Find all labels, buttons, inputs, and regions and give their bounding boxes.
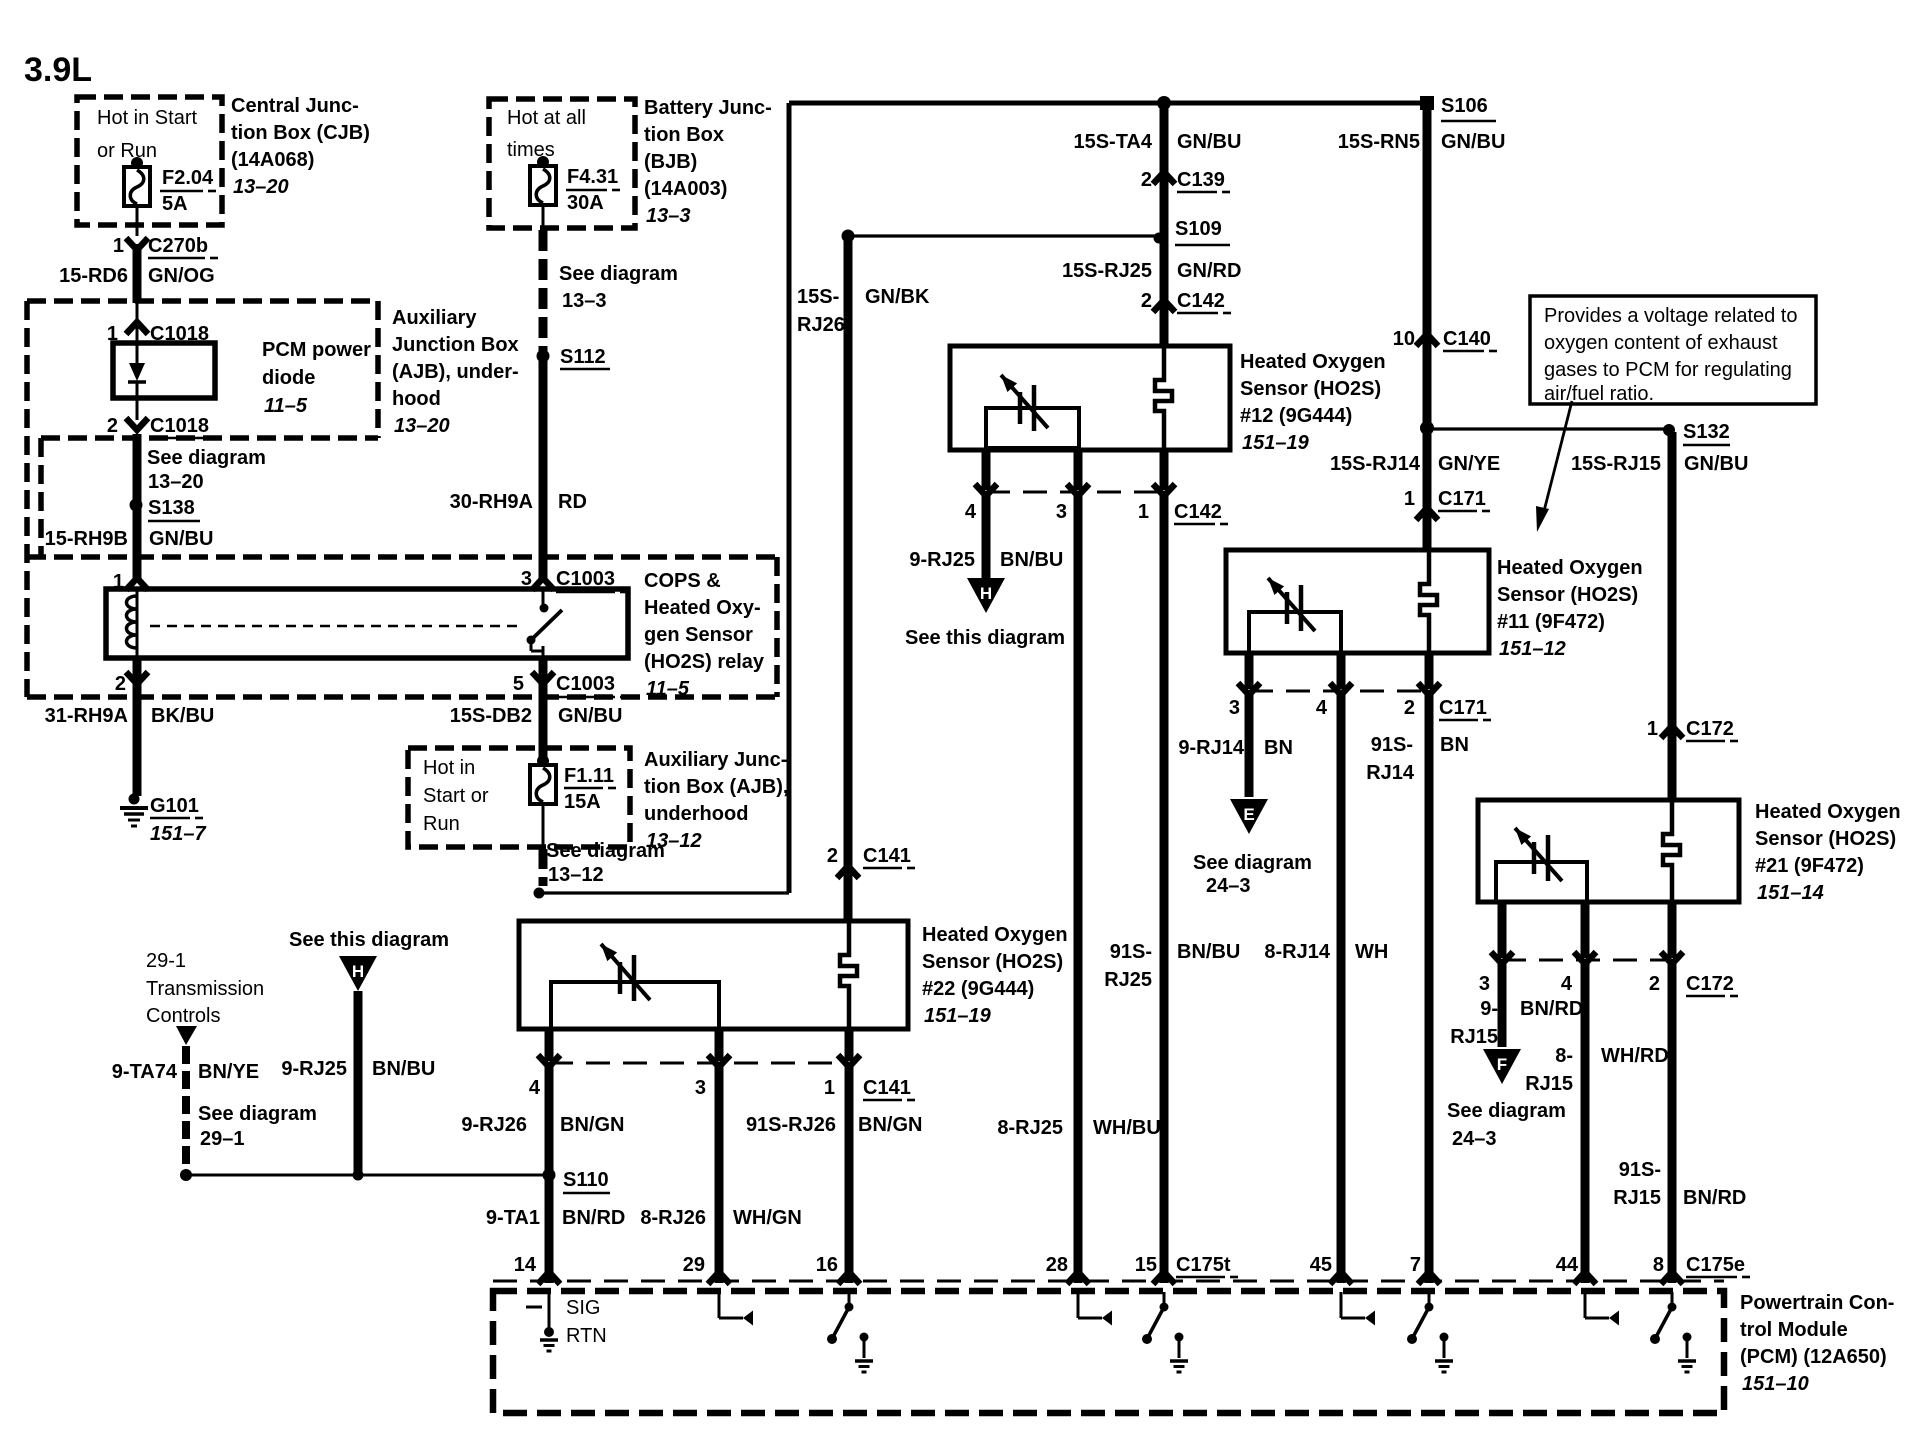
svg-text:44: 44 (1556, 1254, 1579, 1276)
svg-text:(14A068): (14A068) (231, 149, 314, 171)
svg-text:Start or: Start or (423, 785, 489, 807)
svg-text:8: 8 (1653, 1254, 1664, 1276)
PCM box (dashed) (493, 1291, 1724, 1413)
arrow from transmission (176, 1026, 197, 1045)
svg-text:Battery Junc-: Battery Junc- (644, 97, 772, 119)
svg-text:Central Junc-: Central Junc- (231, 95, 359, 117)
svg-text:BN/BU: BN/BU (1000, 549, 1063, 571)
svg-text:4: 4 (965, 501, 977, 523)
wire 30-RH9A RD (450, 356, 587, 578)
svg-text:91S-RJ26: 91S-RJ26 (746, 1114, 836, 1136)
svg-text:3.9L: 3.9L (24, 51, 92, 89)
connector C175e (1686, 1254, 1750, 1277)
svg-text:13–3: 13–3 (562, 290, 607, 312)
PCM pin arrows (538, 1272, 1683, 1284)
note box (1530, 296, 1816, 405)
node S110 (543, 1169, 611, 1194)
svg-text:See diagram: See diagram (559, 263, 678, 285)
svg-text:Auxiliary Junc-: Auxiliary Junc- (644, 749, 787, 771)
svg-text:Sensor (HO2S): Sensor (HO2S) (922, 951, 1063, 973)
svg-text:Hot at all: Hot at all (507, 107, 586, 129)
svg-text:151–19: 151–19 (924, 1005, 992, 1027)
svg-text:#21 (9F472): #21 (9F472) (1755, 855, 1864, 877)
svg-text:BN/RD: BN/RD (562, 1207, 625, 1229)
HO2S #11 pins to C171 (1249, 653, 1429, 689)
svg-text:RJ15: RJ15 (1450, 1026, 1498, 1048)
svg-text:3: 3 (1229, 697, 1240, 719)
svg-text:S112: S112 (560, 346, 606, 368)
relay pin 3 C1003 (521, 568, 628, 592)
svg-text:Controls: Controls (146, 1005, 220, 1027)
svg-text:BN: BN (1264, 737, 1293, 759)
svg-text:C1018: C1018 (150, 415, 209, 437)
svg-text:F2.04: F2.04 (162, 167, 214, 189)
svg-text:91S-: 91S- (1110, 941, 1152, 963)
svg-text:C175e: C175e (1686, 1254, 1745, 1276)
svg-text:16: 16 (816, 1254, 838, 1276)
svg-text:10: 10 (1393, 328, 1415, 350)
label Heated Oxygen Sensor #22 (922, 924, 1068, 1027)
svg-text:RD: RD (558, 491, 587, 513)
svg-text:Hot in Start: Hot in Start (97, 107, 197, 129)
svg-text:(AJB), under-: (AJB), under- (392, 361, 519, 383)
connector C1018 pin 1 (107, 322, 209, 345)
svg-text:S132: S132 (1683, 421, 1730, 443)
HO2S #21 heater (1496, 828, 1587, 902)
svg-text:1: 1 (1647, 718, 1658, 740)
svg-text:COPS &: COPS & (644, 570, 721, 592)
wire to C141 pin 2 (844, 240, 853, 921)
svg-text:30A: 30A (567, 192, 604, 214)
svg-text:S109: S109 (1175, 218, 1222, 240)
junction box AJB F1.11 (dashed) (408, 748, 630, 847)
svg-text:(BJB): (BJB) (644, 151, 697, 173)
svg-text:15S-RJ25: 15S-RJ25 (1062, 260, 1152, 282)
svg-text:C142: C142 (1174, 501, 1222, 523)
label See diagram 13-12 (546, 840, 665, 886)
svg-text:15S-DB2: 15S-DB2 (450, 705, 532, 727)
HO2S #12 pins to C142 (986, 450, 1164, 490)
svg-text:29-1: 29-1 (146, 950, 186, 972)
junction box AJB (dashed) (27, 301, 378, 697)
svg-text:BN/GN: BN/GN (560, 1114, 624, 1136)
svg-text:BN/GN: BN/GN (858, 1114, 922, 1136)
svg-text:GN/BU: GN/BU (558, 705, 622, 727)
svg-text:Heated Oxy-: Heated Oxy- (644, 597, 761, 619)
svg-text:11–5: 11–5 (646, 678, 690, 700)
svg-text:RJ15: RJ15 (1613, 1187, 1661, 1209)
svg-text:9-RJ26: 9-RJ26 (461, 1114, 527, 1136)
relay outer dashed box (27, 557, 777, 697)
fuse F1.11 15A (530, 755, 556, 804)
node on top bus (1157, 96, 1171, 110)
wire 9-RJ25 BN/BU (H) (281, 991, 435, 1174)
connector C171 line (1238, 683, 1440, 695)
svg-text:gen Sensor: gen Sensor (644, 624, 753, 646)
svg-text:#22 (9G444): #22 (9G444) (922, 978, 1034, 1000)
svg-text:Sensor (HO2S): Sensor (HO2S) (1755, 828, 1896, 850)
svg-text:Heated Oxygen: Heated Oxygen (1755, 801, 1901, 823)
relay pin 1 (113, 571, 148, 593)
label Hot in Start or Run (AJB) (423, 757, 489, 835)
svg-text:13–20: 13–20 (233, 176, 289, 198)
svg-text:2: 2 (1404, 697, 1415, 719)
label See diagram 13-3 (559, 263, 678, 312)
svg-text:BN/BU: BN/BU (372, 1058, 435, 1080)
HO2S #21 box (1478, 800, 1739, 902)
HO2S #12 heater (986, 375, 1079, 448)
wire 9-RJ15 BN/RD to F (1450, 964, 1583, 1048)
svg-text:See diagram: See diagram (147, 447, 266, 469)
wire fuse to C270b (136, 206, 139, 236)
svg-text:GN/BK: GN/BK (865, 286, 930, 308)
svg-text:C171: C171 (1438, 488, 1486, 510)
svg-text:underhood: underhood (644, 803, 748, 825)
svg-text:4: 4 (1561, 973, 1573, 995)
svg-text:oxygen content of exhaust: oxygen content of exhaust (1544, 332, 1778, 354)
svg-text:1: 1 (1404, 488, 1415, 510)
svg-text:#11 (9F472): #11 (9F472) (1497, 611, 1605, 633)
wire 9-RJ26 BN/GN pcm14 (461, 1067, 624, 1283)
diode box PCM power diode (113, 343, 215, 398)
svg-text:(PCM) (12A650): (PCM) (12A650) (1740, 1346, 1887, 1368)
svg-text:GN/BU: GN/BU (149, 528, 213, 550)
wire 31-RH9A BK/BU (45, 658, 215, 796)
svg-text:151–14: 151–14 (1757, 882, 1824, 904)
label F2.04 5A (160, 167, 216, 215)
svg-text:trol Module: trol Module (1740, 1319, 1848, 1341)
PCM pin numbers (514, 1254, 1664, 1276)
svg-text:2: 2 (115, 673, 126, 695)
svg-text:Transmission: Transmission (146, 978, 264, 1000)
dashed wire 9-TA74 BN/YE (112, 1046, 259, 1170)
svg-text:11–5: 11–5 (264, 395, 308, 417)
svg-text:C171: C171 (1439, 697, 1487, 719)
connector C141 pin 2 (827, 845, 915, 878)
svg-text:See this diagram: See this diagram (905, 627, 1065, 649)
fuse F2.04 5A (124, 157, 150, 206)
splice S132 (1420, 421, 1730, 445)
note arrow (1536, 401, 1572, 532)
svg-text:15S-RJ14: 15S-RJ14 (1330, 453, 1421, 475)
label Hot in Start or Run (97, 107, 197, 162)
HO2S #11 box (1226, 550, 1489, 653)
HO2S #22 heater (551, 944, 719, 1029)
connector C175 line (493, 1280, 1724, 1283)
HO2S #22 pins to C141 (549, 1029, 849, 1061)
svg-text:Sensor (HO2S): Sensor (HO2S) (1497, 584, 1638, 606)
svg-text:C1003: C1003 (556, 673, 615, 695)
wire 15-RD6 GN/OG (59, 244, 215, 303)
svg-text:13–3: 13–3 (646, 205, 691, 227)
svg-text:15-RH9B: 15-RH9B (45, 528, 128, 550)
svg-text:8-RJ26: 8-RJ26 (640, 1207, 706, 1229)
svg-text:G101: G101 (150, 795, 199, 817)
svg-text:See diagram: See diagram (198, 1103, 317, 1125)
label 29-1 Transmission Controls (146, 950, 264, 1027)
svg-text:31-RH9A: 31-RH9A (45, 705, 128, 727)
relay coil (127, 596, 138, 648)
svg-text:151–7: 151–7 (150, 823, 206, 845)
label Central Junction Box (231, 95, 370, 198)
svg-text:13–20: 13–20 (148, 471, 204, 493)
svg-text:Heated Oxygen: Heated Oxygen (1497, 557, 1643, 579)
HO2S #22 box (519, 921, 908, 1029)
svg-text:4: 4 (1316, 697, 1328, 719)
svg-text:C140: C140 (1443, 328, 1491, 350)
svg-text:GN/BU: GN/BU (1684, 453, 1748, 475)
relay switch (527, 589, 563, 660)
fuse F4.31 30A (530, 156, 556, 205)
svg-text:C141: C141 (863, 1077, 911, 1099)
svg-text:Run: Run (423, 813, 460, 835)
svg-text:See diagram: See diagram (546, 840, 665, 862)
svg-text:RJ14: RJ14 (1366, 762, 1415, 784)
label PCM power diode (262, 339, 371, 417)
svg-text:RJ25: RJ25 (1104, 969, 1152, 991)
connector C172 line (1491, 952, 1683, 964)
wire below BJB (dashed) (542, 205, 545, 352)
svg-text:3: 3 (695, 1077, 706, 1099)
svg-text:9-TA1: 9-TA1 (486, 1207, 540, 1229)
wire 8-RJ14 WH pcm45 (1264, 695, 1388, 1283)
PCM pin 45 input arrow (1341, 1292, 1375, 1326)
svg-text:8-RJ25: 8-RJ25 (997, 1117, 1063, 1139)
PCM pin 7 switch to ground (1407, 1292, 1453, 1372)
svg-text:C172: C172 (1686, 973, 1734, 995)
svg-text:hood: hood (392, 388, 441, 410)
svg-text:1: 1 (824, 1077, 835, 1099)
label Powertrain Control Module (1740, 1292, 1894, 1395)
PCM pin 44 input arrow (1585, 1292, 1619, 1326)
label F4.31 30A (566, 166, 620, 214)
connector C171 pin 1 (1404, 488, 1490, 520)
wire 15S-DB2 GN/BU (450, 658, 623, 760)
svg-text:9-: 9- (1480, 998, 1498, 1020)
svg-text:30-RH9A: 30-RH9A (450, 491, 533, 513)
svg-text:E: E (1243, 805, 1254, 824)
svg-text:S106: S106 (1441, 95, 1488, 117)
svg-text:See this diagram: See this diagram (289, 929, 449, 951)
svg-text:Hot in: Hot in (423, 757, 475, 779)
svg-text:24–3: 24–3 (1206, 875, 1251, 897)
svg-text:C175t: C175t (1176, 1254, 1231, 1276)
svg-text:F4.31: F4.31 (567, 166, 618, 188)
svg-text:RJ15: RJ15 (1525, 1073, 1573, 1095)
svg-text:8-RJ14: 8-RJ14 (1264, 941, 1330, 963)
svg-text:5: 5 (513, 673, 524, 695)
svg-text:S138: S138 (148, 497, 195, 519)
svg-text:C139: C139 (1177, 169, 1225, 191)
label See this diagram (905, 627, 1065, 649)
svg-text:Sensor (HO2S): Sensor (HO2S) (1240, 378, 1381, 400)
label Battery Junction Box (644, 97, 772, 227)
label See diagram 13-20 (147, 447, 266, 493)
label Hot at all times (507, 107, 586, 161)
svg-text:GN/BU: GN/BU (1441, 131, 1505, 153)
svg-text:9-RJ25: 9-RJ25 (909, 549, 975, 571)
svg-text:BN/RD: BN/RD (1683, 1187, 1746, 1209)
svg-text:15S-RJ15: 15S-RJ15 (1571, 453, 1661, 475)
connector C142 line (975, 484, 1175, 496)
connector C142 pin 2 (1141, 290, 1231, 313)
wire 8-RJ26 WH/GN pcm29 (640, 1067, 802, 1283)
svg-text:1: 1 (1138, 501, 1149, 523)
svg-text:4: 4 (529, 1077, 541, 1099)
connector C175t (1176, 1254, 1238, 1277)
diode symbol (128, 301, 146, 420)
wire 15S-RJ26 GN/BK riser (789, 103, 930, 893)
title 3.9L (24, 51, 92, 89)
svg-text:gases to PCM for regulating: gases to PCM for regulating (1544, 359, 1792, 381)
svg-text:15S-: 15S- (797, 286, 839, 308)
svg-text:F1.11: F1.11 (564, 765, 614, 787)
HO2S #22 sensor element (840, 921, 857, 1029)
svg-text:times: times (507, 139, 555, 161)
label Heated Oxygen Sensor #11 (1497, 557, 1643, 660)
svg-text:151–12: 151–12 (1499, 638, 1566, 660)
svg-text:RJ26: RJ26 (797, 314, 845, 336)
splice S109 (842, 218, 1231, 245)
svg-text:air/fuel ratio.: air/fuel ratio. (1544, 383, 1654, 405)
svg-text:14: 14 (514, 1254, 537, 1276)
junction box CJB (dashed) (77, 97, 222, 225)
svg-text:GN/OG: GN/OG (148, 265, 215, 287)
wire 15S-RN5 GN/BU (1338, 103, 1506, 550)
wire 15S-TA4 GN/BU (1073, 103, 1241, 346)
PCM pin 14 SIG RTN ground (526, 1292, 607, 1351)
label See diagram 24-3 (E) (1193, 852, 1312, 897)
HO2S #21 sensor element (1663, 800, 1680, 902)
label COPS & HO2S relay (644, 570, 765, 700)
svg-text:9-RJ14: 9-RJ14 (1178, 737, 1244, 759)
svg-text:GN/BU: GN/BU (1177, 131, 1241, 153)
label See diagram 29-1 (198, 1103, 317, 1150)
svg-text:91S-: 91S- (1619, 1159, 1661, 1181)
svg-text:151–19: 151–19 (1242, 432, 1310, 454)
svg-text:9-TA74: 9-TA74 (112, 1061, 178, 1083)
svg-text:13–12: 13–12 (548, 864, 604, 886)
PCM pin 28 input arrow (1078, 1292, 1112, 1326)
node at wire corner (534, 888, 545, 899)
svg-text:151–10: 151–10 (1742, 1373, 1809, 1395)
svg-text:GN/YE: GN/YE (1438, 453, 1500, 475)
svg-text:24–3: 24–3 (1452, 1128, 1497, 1150)
svg-text:C270b: C270b (148, 235, 208, 257)
svg-text:9-RJ25: 9-RJ25 (281, 1058, 347, 1080)
svg-text:Powertrain Con-: Powertrain Con- (1740, 1292, 1894, 1314)
svg-text:WH/RD: WH/RD (1601, 1045, 1669, 1067)
PCM pin 16 switch to ground (827, 1292, 873, 1372)
junction box BJB (dashed) (489, 99, 635, 228)
connector C172 pin 1 (1647, 718, 1738, 741)
svg-text:BK/BU: BK/BU (151, 705, 214, 727)
HO2S #12 sensor element (1155, 346, 1172, 450)
wire 91S-RJ26 BN/GN pcm16 (746, 1067, 923, 1283)
wire 91S-RJ14 BN pcm7 (1366, 695, 1469, 1283)
svg-text:(14A003): (14A003) (644, 178, 727, 200)
svg-text:15: 15 (1135, 1254, 1157, 1276)
svg-text:15S-TA4: 15S-TA4 (1073, 131, 1152, 153)
svg-text:91S-: 91S- (1371, 734, 1413, 756)
labels C142 pins 4 3 1 (965, 501, 1228, 524)
arrow H (source) (339, 956, 377, 991)
svg-text:29–1: 29–1 (200, 1128, 245, 1150)
svg-text:5A: 5A (162, 193, 188, 215)
connector C1018 pin 2 (107, 415, 220, 438)
svg-text:2: 2 (1141, 290, 1152, 312)
wire 8-RJ25 WH/BU pcm28 (997, 496, 1160, 1283)
svg-text:WH: WH (1355, 941, 1388, 963)
svg-text:H: H (352, 962, 364, 981)
svg-text:GN/RD: GN/RD (1177, 260, 1241, 282)
svg-text:Heated Oxygen: Heated Oxygen (1240, 351, 1386, 373)
labels C141 pins 4 3 1 (529, 1077, 915, 1100)
label G101 151-7 (150, 795, 206, 845)
svg-text:2: 2 (1141, 169, 1152, 191)
svg-text:7: 7 (1410, 1254, 1421, 1276)
wire relay pin1 to pin2 (136, 589, 139, 658)
wire label 15S-RJ14 GN/YE (1330, 453, 1500, 475)
svg-text:See diagram: See diagram (1193, 852, 1312, 874)
svg-text:Auxiliary: Auxiliary (392, 307, 477, 329)
svg-text:SIG: SIG (566, 1297, 600, 1319)
labels C171 pins 3 4 2 (1229, 697, 1491, 720)
relay pin 2 (115, 672, 148, 695)
svg-text:tion Box (AJB),: tion Box (AJB), (644, 776, 788, 798)
svg-text:BN/BU: BN/BU (1177, 941, 1240, 963)
label Heated Oxygen Sensor #12 (1240, 351, 1386, 454)
svg-text:RTN: RTN (566, 1325, 607, 1347)
wire 91S-RJ25 BN/BU pcm15 (1104, 496, 1240, 1283)
svg-text:Junction Box: Junction Box (392, 334, 519, 356)
svg-text:1: 1 (113, 235, 124, 257)
wire label 9-TA1 BN/RD (486, 1207, 625, 1229)
svg-text:15-RD6: 15-RD6 (59, 265, 128, 287)
svg-text:2: 2 (107, 415, 118, 437)
svg-text:8-: 8- (1555, 1045, 1573, 1067)
svg-text:WH/BU: WH/BU (1093, 1117, 1161, 1139)
svg-text:S110: S110 (563, 1169, 609, 1191)
splice line to S110 (180, 1169, 549, 1181)
svg-text:28: 28 (1046, 1254, 1068, 1276)
label See this diagram (H) (289, 929, 449, 951)
arrow F (1483, 1049, 1521, 1084)
svg-text:#12 (9G444): #12 (9G444) (1240, 405, 1352, 427)
svg-text:2: 2 (827, 845, 838, 867)
relay box COPS & HO2S (106, 589, 628, 658)
svg-text:15A: 15A (564, 791, 601, 813)
PCM pin 29 input arrow (719, 1292, 753, 1326)
node S112 (537, 346, 611, 369)
svg-text:PCM power: PCM power (262, 339, 371, 361)
labels C172 pins 3 4 2 (1479, 973, 1738, 996)
label Auxiliary Junction Box (AJB) underhood (644, 749, 788, 852)
svg-text:C141: C141 (863, 845, 911, 867)
svg-text:3: 3 (1479, 973, 1490, 995)
node S106 (1420, 95, 1496, 121)
connector C270b pin 1 (113, 235, 218, 258)
HO2S #21 pins to C172 (1502, 902, 1672, 958)
svg-text:C142: C142 (1177, 290, 1225, 312)
PCM pin 15 switch to ground (1142, 1292, 1188, 1372)
svg-text:45: 45 (1310, 1254, 1332, 1276)
HO2S #11 sensor element (1420, 550, 1437, 653)
svg-text:C172: C172 (1686, 718, 1734, 740)
svg-text:Heated Oxygen: Heated Oxygen (922, 924, 1068, 946)
wire 9-RJ25 BN/BU to H (909, 496, 1063, 578)
svg-text:29: 29 (683, 1254, 705, 1276)
